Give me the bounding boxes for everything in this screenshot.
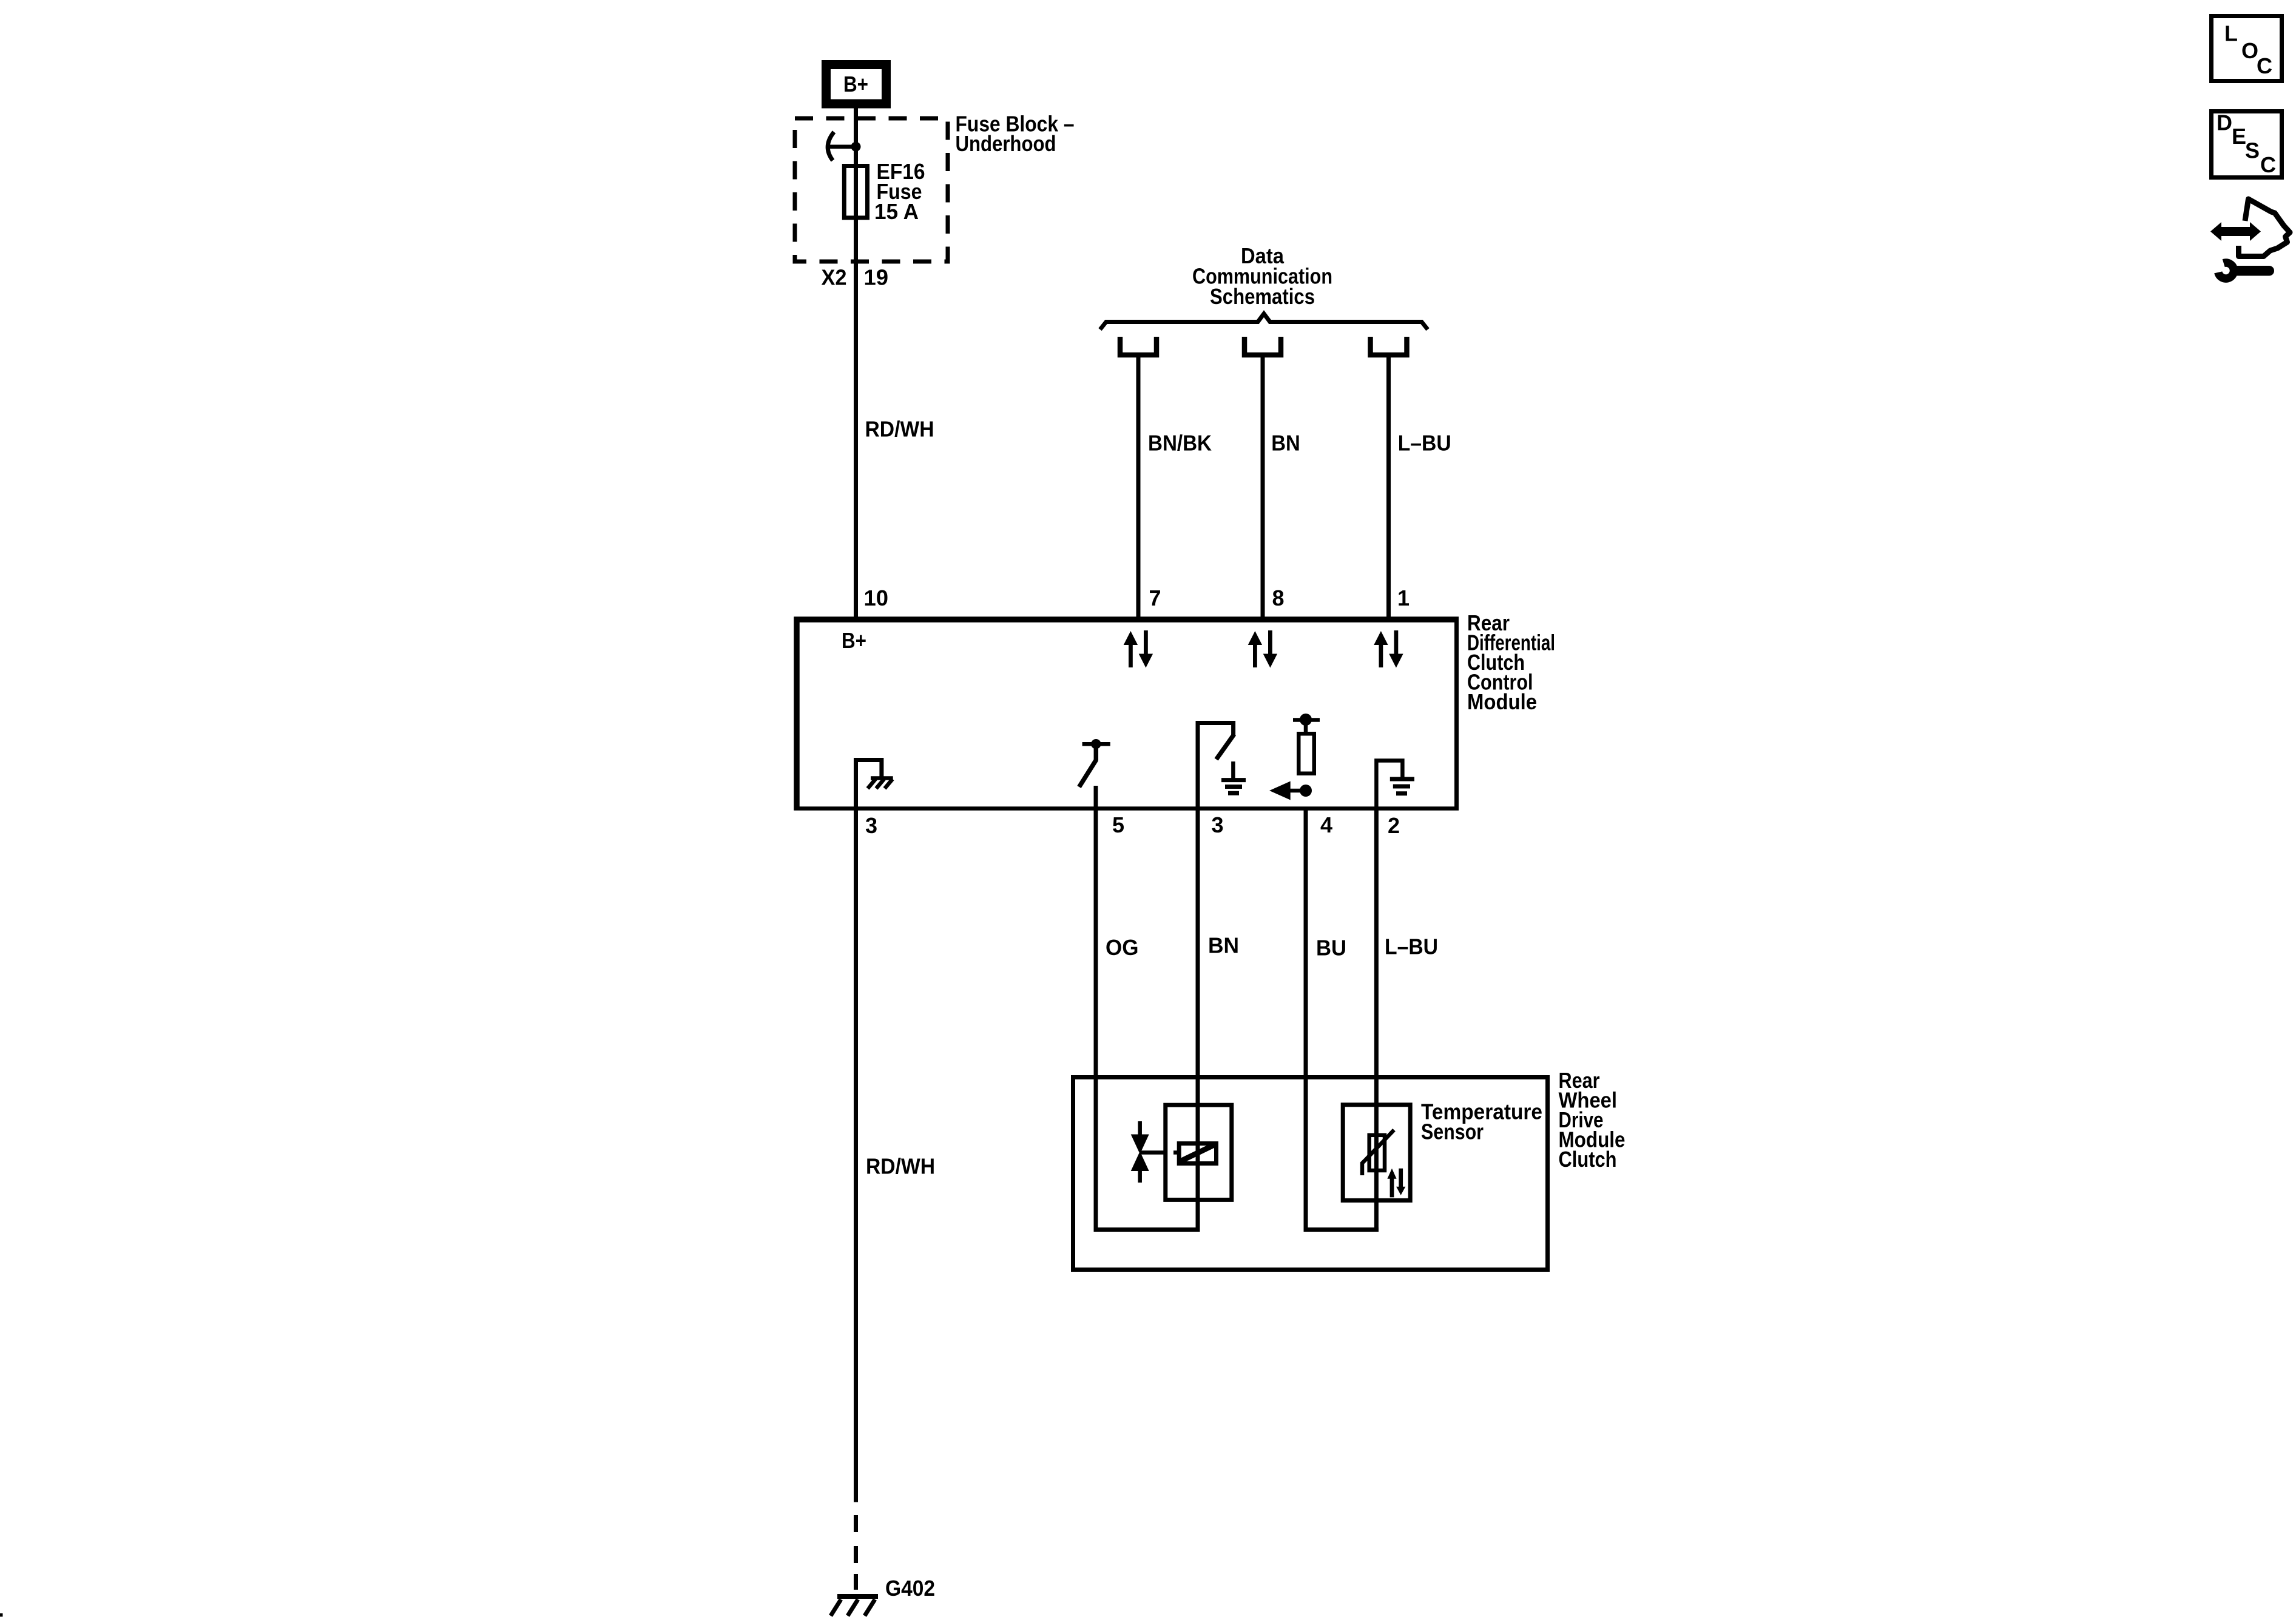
page corner mark (0, 1613, 3, 1617)
svg-text:BN/BK: BN/BK (1148, 431, 1212, 456)
pin 5 internal switch (1079, 739, 1110, 810)
svg-text:8: 8 (1272, 586, 1285, 610)
off-page connector U3 (L-BU) (1371, 337, 1407, 355)
svg-text:S: S (2245, 138, 2260, 163)
DESC box (2212, 110, 2282, 178)
svg-text:C: C (2257, 53, 2272, 78)
off-page connector U1 (BN/BK) (1120, 337, 1156, 355)
svg-text:L: L (2224, 21, 2238, 46)
rear wheel drive module clutch box (1073, 1078, 1548, 1270)
bidirectional arrows pin 1 (1374, 630, 1403, 668)
pin 4 wiper arrow (1269, 781, 1312, 800)
svg-text:3: 3 (865, 813, 877, 838)
fuse label EF16 Fuse 15 A (874, 159, 925, 224)
solenoid coil (1173, 1144, 1217, 1164)
off-page connector U2 (BN) (1244, 337, 1281, 355)
wire pin 5 OG (1094, 809, 1098, 1230)
svg-text:3: 3 (1212, 812, 1224, 837)
battery terminal B+ (826, 65, 886, 104)
loop wire OG to BN (1094, 1227, 1200, 1232)
rear wheel drive module clutch label (1559, 1068, 1626, 1172)
svg-text:Schematics: Schematics (1210, 284, 1315, 309)
wire clip tap (829, 144, 854, 149)
loop wire BU to L-BU (1304, 1227, 1379, 1232)
wire pin 3 to G402 (854, 809, 858, 1502)
brace (1100, 314, 1428, 329)
wire L-BU to pin 1 (1386, 357, 1391, 619)
svg-text:Clutch: Clutch (1559, 1147, 1617, 1172)
svg-text:4: 4 (1320, 812, 1332, 837)
bidirectional arrows pin 8 (1248, 630, 1277, 668)
svg-text:BN: BN (1208, 933, 1239, 958)
service icon double arrow (2210, 222, 2261, 241)
fuse block underhood dashed box (795, 118, 948, 262)
svg-text:2: 2 (1388, 813, 1400, 838)
terminal clip in fuse block (828, 132, 834, 161)
wire pin 3b BN (1196, 809, 1200, 1230)
svg-text:10: 10 (864, 586, 889, 610)
svg-text:Sensor: Sensor (1421, 1119, 1484, 1144)
data communication schematics label (1192, 243, 1332, 309)
bidirectional arrows pin 7 (1124, 630, 1153, 668)
ground G402 (831, 1596, 878, 1616)
svg-text:L–BU: L–BU (1398, 431, 1451, 456)
wire pin 2 L-BU (1374, 809, 1379, 1230)
temperature sensor box (1343, 1105, 1410, 1201)
suppression diode pair (1131, 1121, 1164, 1183)
dashed wire to ground (854, 1515, 858, 1590)
junction dot (851, 142, 861, 152)
svg-text:5: 5 (1112, 812, 1124, 837)
fuse EF16 (844, 166, 867, 218)
svg-text:OG: OG (1106, 935, 1139, 960)
LOC box (2212, 16, 2282, 81)
svg-text:1: 1 (1397, 586, 1410, 610)
pin 3b internal switch (1198, 723, 1234, 809)
svg-text:BU: BU (1316, 936, 1346, 960)
svg-text:19: 19 (864, 265, 889, 290)
wire BN to pin 8 (1261, 357, 1265, 619)
wire pin 4 BU (1304, 809, 1308, 1230)
svg-text:E: E (2232, 124, 2246, 149)
pin 2 internal ground hook (1376, 761, 1414, 809)
svg-text:RD/WH: RD/WH (865, 417, 934, 442)
svg-text:X2: X2 (822, 265, 847, 290)
svg-text:B+: B+ (842, 628, 866, 653)
service icon wrench (2218, 263, 2274, 279)
svg-text:Underhood: Underhood (956, 131, 1056, 156)
svg-text:O: O (2241, 38, 2258, 63)
wire from B+ through fuse to module pin 10 (854, 108, 858, 619)
svg-text:BN: BN (1271, 431, 1300, 456)
svg-text:G402: G402 (885, 1576, 935, 1601)
thermistor (1362, 1130, 1394, 1175)
svg-text:Module: Module (1467, 689, 1537, 714)
fuse block label (956, 112, 1075, 157)
sensor arrows (1387, 1169, 1405, 1198)
clutch solenoid box (1166, 1105, 1232, 1200)
svg-text:L–BU: L–BU (1385, 934, 1438, 959)
wire BN/BK to pin 7 (1136, 357, 1141, 619)
pin 3 internal ground hook (856, 760, 893, 809)
module Rear Differential Clutch Control Module box (794, 617, 1459, 811)
svg-text:B+: B+ (843, 72, 868, 96)
svg-text:RD/WH: RD/WH (866, 1154, 935, 1179)
svg-text:D: D (2217, 110, 2232, 135)
service icon outline arrow (2239, 199, 2291, 257)
svg-text:C: C (2260, 152, 2276, 177)
svg-text:15 A: 15 A (874, 199, 919, 224)
svg-text:7: 7 (1149, 586, 1161, 610)
module name label (1467, 610, 1555, 714)
temperature sensor label (1421, 1099, 1542, 1144)
ground symbol at pin 3b (1221, 761, 1246, 793)
pin 4 internal resistor (1293, 714, 1320, 774)
